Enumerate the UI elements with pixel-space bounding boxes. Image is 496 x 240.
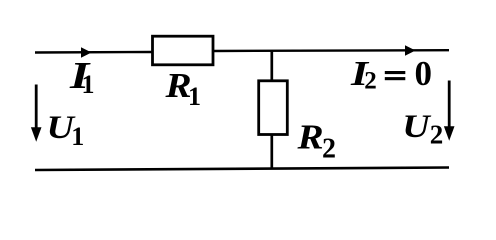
svg-text:1: 1 [188, 82, 201, 111]
svg-text:2: 2 [364, 68, 377, 95]
svg-text:1: 1 [82, 70, 95, 99]
svg-text:1: 1 [71, 122, 84, 151]
svg-text:R: R [296, 118, 323, 157]
svg-text:U: U [402, 107, 432, 144]
svg-text:0: 0 [415, 54, 433, 93]
svg-text:2: 2 [430, 120, 444, 150]
svg-text:2: 2 [322, 134, 336, 165]
